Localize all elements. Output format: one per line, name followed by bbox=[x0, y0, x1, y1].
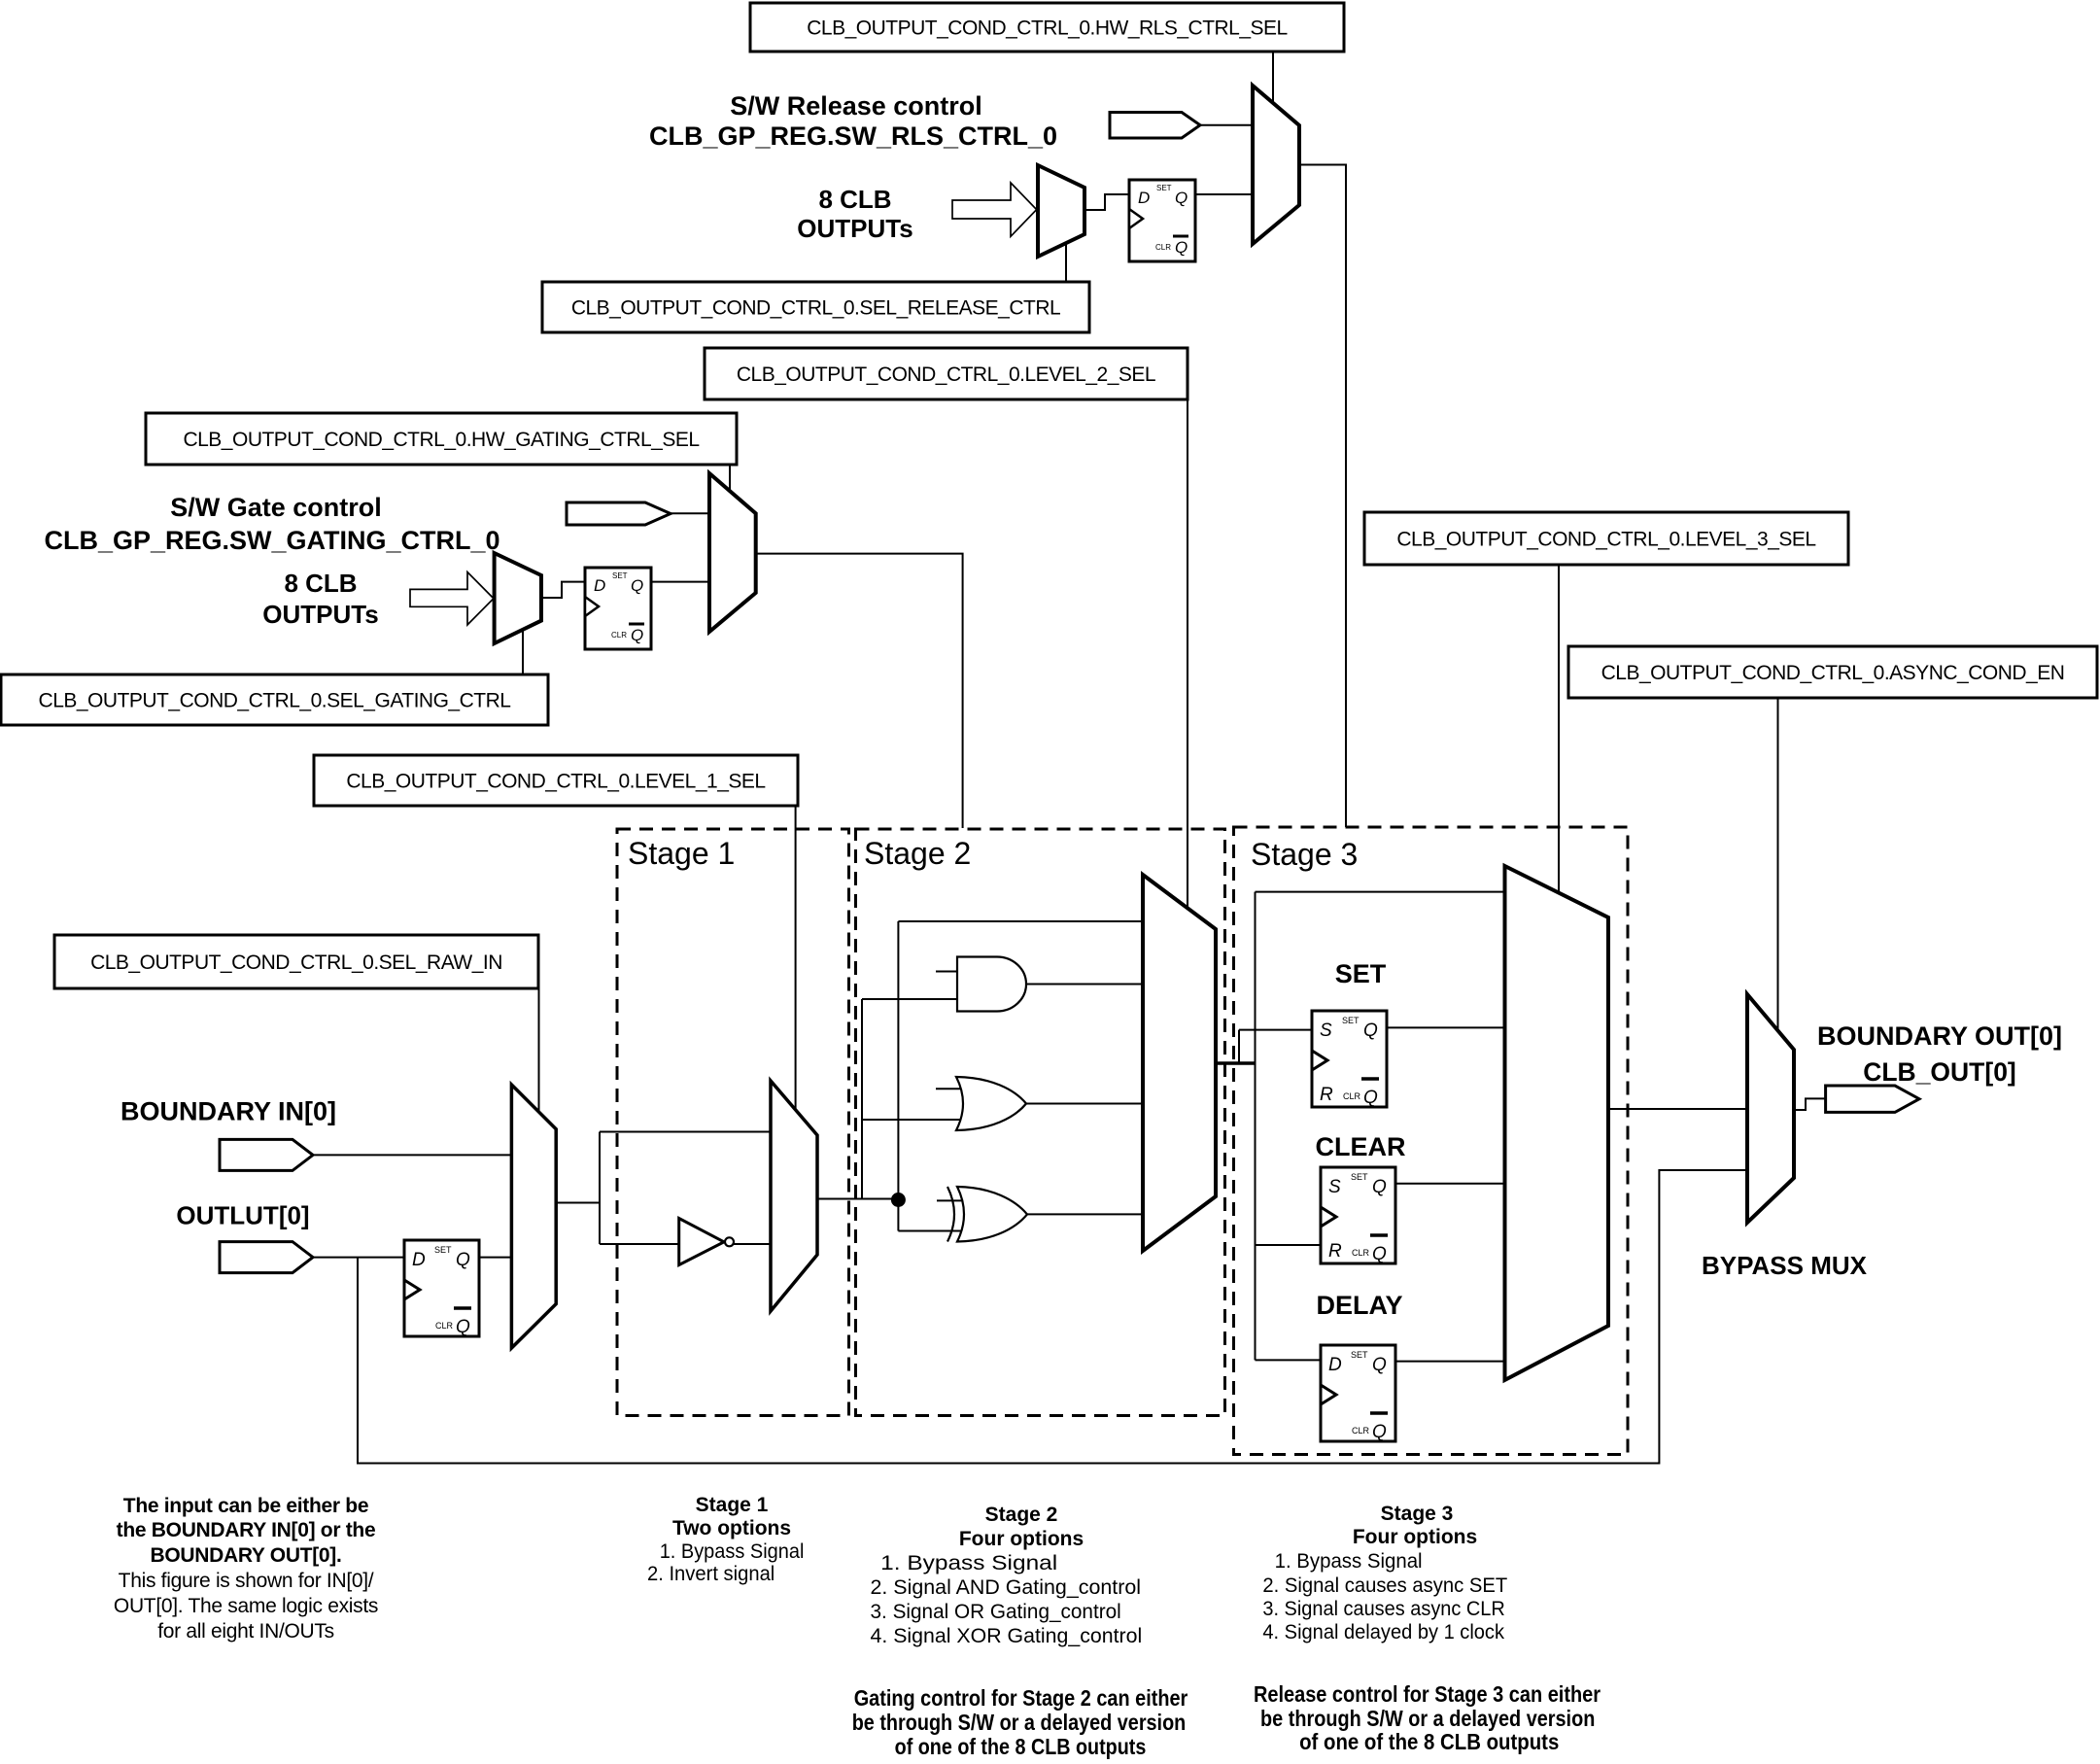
svg-text:2. Signal AND Gating_control: 2. Signal AND Gating_control bbox=[871, 1576, 1142, 1599]
svg-text:the BOUNDARY IN[0] or the: the BOUNDARY IN[0] or the bbox=[117, 1519, 376, 1541]
svg-text:CLEAR: CLEAR bbox=[1316, 1132, 1406, 1161]
svg-text:S/W Release control: S/W Release control bbox=[730, 91, 982, 121]
svg-text:of one of the 8 CLB outputs: of one of the 8 CLB outputs bbox=[1299, 1729, 1559, 1754]
svg-text:8 CLB: 8 CLB bbox=[818, 185, 891, 214]
svg-text:SET: SET bbox=[1351, 1172, 1368, 1182]
svg-text:D: D bbox=[1328, 1355, 1342, 1375]
svg-text:CLB_OUTPUT_COND_CTRL_0.LEVEL_2: CLB_OUTPUT_COND_CTRL_0.LEVEL_2_SEL bbox=[737, 363, 1155, 386]
svg-text:OUTPUTs: OUTPUTs bbox=[262, 600, 378, 629]
svg-text:CLB_OUTPUT_COND_CTRL_0.SEL_REL: CLB_OUTPUT_COND_CTRL_0.SEL_RELEASE_CTRL bbox=[571, 296, 1060, 319]
svg-text:CLR: CLR bbox=[1352, 1426, 1370, 1435]
svg-text:Q: Q bbox=[456, 1317, 470, 1337]
svg-text:CLR: CLR bbox=[1155, 243, 1171, 252]
svg-text:SET: SET bbox=[434, 1245, 452, 1255]
svg-text:SET: SET bbox=[1156, 184, 1172, 192]
svg-text:CLB_OUTPUT_COND_CTRL_0.LEVEL_3: CLB_OUTPUT_COND_CTRL_0.LEVEL_3_SEL bbox=[1396, 528, 1815, 550]
svg-text:Q: Q bbox=[1175, 189, 1188, 207]
svg-text:Stage 2: Stage 2 bbox=[864, 836, 971, 871]
svg-text:BOUNDARY OUT[0].: BOUNDARY OUT[0]. bbox=[150, 1544, 341, 1567]
svg-text:Q: Q bbox=[1175, 238, 1188, 257]
svg-text:SET: SET bbox=[1351, 1350, 1368, 1360]
svg-text:CLR: CLR bbox=[435, 1321, 454, 1331]
svg-text:be through S/W or a delayed ve: be through S/W or a delayed version bbox=[1260, 1706, 1595, 1731]
svg-text:3. Signal causes async CLR: 3. Signal causes async CLR bbox=[1262, 1598, 1504, 1620]
svg-text:Q: Q bbox=[1372, 1422, 1387, 1442]
svg-text:This figure is shown for IN[0]: This figure is shown for IN[0]/ bbox=[119, 1570, 374, 1592]
svg-text:CLB_OUTPUT_COND_CTRL_0.SEL_RAW: CLB_OUTPUT_COND_CTRL_0.SEL_RAW_IN bbox=[90, 951, 502, 974]
svg-text:D: D bbox=[594, 576, 605, 595]
svg-text:Q: Q bbox=[631, 576, 643, 595]
svg-text:CLB_GP_REG.SW_RLS_CTRL_0: CLB_GP_REG.SW_RLS_CTRL_0 bbox=[649, 121, 1057, 151]
svg-text:Q: Q bbox=[1363, 1020, 1378, 1041]
svg-text:Q: Q bbox=[631, 626, 643, 644]
svg-text:Stage 1: Stage 1 bbox=[696, 1494, 769, 1516]
svg-text:D: D bbox=[412, 1250, 426, 1270]
svg-text:Two options: Two options bbox=[672, 1517, 791, 1539]
svg-text:2. Invert signal: 2. Invert signal bbox=[647, 1563, 775, 1585]
svg-text:Four options: Four options bbox=[1353, 1526, 1477, 1548]
svg-text:D: D bbox=[1138, 189, 1150, 207]
svg-text:4. Signal XOR Gating_control: 4. Signal XOR Gating_control bbox=[871, 1625, 1143, 1647]
svg-text:8 CLB: 8 CLB bbox=[284, 569, 357, 598]
svg-text:CLB_OUTPUT_COND_CTRL_0.HW_RLS_: CLB_OUTPUT_COND_CTRL_0.HW_RLS_CTRL_SEL bbox=[807, 17, 1288, 39]
svg-text:of one of the 8 CLB outputs: of one of the 8 CLB outputs bbox=[895, 1734, 1147, 1759]
svg-text:S/W Gate control: S/W Gate control bbox=[170, 493, 382, 522]
svg-text:CLR: CLR bbox=[611, 631, 627, 640]
svg-text:Release control for Stage 3 ca: Release control for Stage 3 can either bbox=[1254, 1681, 1601, 1707]
svg-text:Q: Q bbox=[1372, 1177, 1387, 1197]
svg-text:4. Signal delayed by 1 clock: 4. Signal delayed by 1 clock bbox=[1262, 1621, 1504, 1643]
svg-text:Four options: Four options bbox=[959, 1528, 1084, 1550]
svg-text:BOUNDARY OUT[0]: BOUNDARY OUT[0] bbox=[1817, 1021, 2062, 1051]
svg-text:Q: Q bbox=[1372, 1355, 1387, 1375]
svg-text:Q: Q bbox=[1372, 1244, 1387, 1264]
svg-text:CLB_OUT[0]: CLB_OUT[0] bbox=[1863, 1057, 2016, 1087]
svg-text:Q: Q bbox=[456, 1250, 470, 1270]
svg-text:Stage 2: Stage 2 bbox=[985, 1504, 1058, 1526]
svg-text:1. Bypass Signal: 1. Bypass Signal bbox=[660, 1540, 805, 1563]
svg-text:BYPASS MUX: BYPASS MUX bbox=[1702, 1251, 1868, 1280]
svg-text:CLB_OUTPUT_COND_CTRL_0.LEVEL_1: CLB_OUTPUT_COND_CTRL_0.LEVEL_1_SEL bbox=[346, 770, 765, 792]
svg-text:CLB_OUTPUT_COND_CTRL_0.HW_GATI: CLB_OUTPUT_COND_CTRL_0.HW_GATING_CTRL_SE… bbox=[183, 429, 699, 451]
svg-text:Stage 3: Stage 3 bbox=[1381, 1503, 1454, 1525]
svg-text:for all eight IN/OUTs: for all eight IN/OUTs bbox=[157, 1620, 334, 1643]
svg-text:CLB_GP_REG.SW_GATING_CTRL_0: CLB_GP_REG.SW_GATING_CTRL_0 bbox=[44, 526, 499, 555]
svg-text:1. Bypass Signal: 1. Bypass Signal bbox=[1275, 1550, 1423, 1573]
svg-text:CLR: CLR bbox=[1343, 1091, 1361, 1101]
svg-text:CLB_OUTPUT_COND_CTRL_0.SEL_GAT: CLB_OUTPUT_COND_CTRL_0.SEL_GATING_CTRL bbox=[39, 689, 511, 711]
svg-text:SET: SET bbox=[1335, 959, 1387, 988]
svg-text:3. Signal OR Gating_control: 3. Signal OR Gating_control bbox=[871, 1601, 1121, 1623]
svg-text:SET: SET bbox=[1342, 1016, 1360, 1025]
svg-text:Stage 3: Stage 3 bbox=[1251, 837, 1358, 872]
svg-text:S: S bbox=[1328, 1177, 1341, 1197]
svg-text:The input can be either be: The input can be either be bbox=[123, 1495, 368, 1517]
svg-text:CLR: CLR bbox=[1352, 1248, 1370, 1258]
svg-text:DELAY: DELAY bbox=[1316, 1291, 1402, 1320]
svg-text:2. Signal causes async SET: 2. Signal causes async SET bbox=[1262, 1574, 1507, 1597]
svg-text:Gating control for Stage 2 can: Gating control for Stage 2 can either bbox=[854, 1685, 1188, 1711]
svg-text:be through S/W or a delayed ve: be through S/W or a delayed version bbox=[852, 1710, 1187, 1735]
svg-text:OUTLUT[0]: OUTLUT[0] bbox=[176, 1200, 309, 1229]
svg-text:OUTPUTs: OUTPUTs bbox=[797, 214, 912, 243]
svg-text:CLB_OUTPUT_COND_CTRL_0.ASYNC_C: CLB_OUTPUT_COND_CTRL_0.ASYNC_COND_EN bbox=[1601, 662, 2065, 684]
svg-text:R: R bbox=[1328, 1241, 1342, 1262]
svg-text:S: S bbox=[1320, 1020, 1332, 1041]
svg-text:1. Bypass Signal: 1. Bypass Signal bbox=[880, 1552, 1057, 1574]
svg-text:SET: SET bbox=[612, 571, 628, 580]
svg-text:Stage 1: Stage 1 bbox=[628, 836, 735, 871]
svg-text:Q: Q bbox=[1363, 1088, 1378, 1108]
svg-text:BOUNDARY IN[0]: BOUNDARY IN[0] bbox=[120, 1097, 336, 1126]
svg-text:R: R bbox=[1320, 1085, 1333, 1105]
svg-text:OUT[0]. The same logic exists: OUT[0]. The same logic exists bbox=[114, 1595, 378, 1617]
